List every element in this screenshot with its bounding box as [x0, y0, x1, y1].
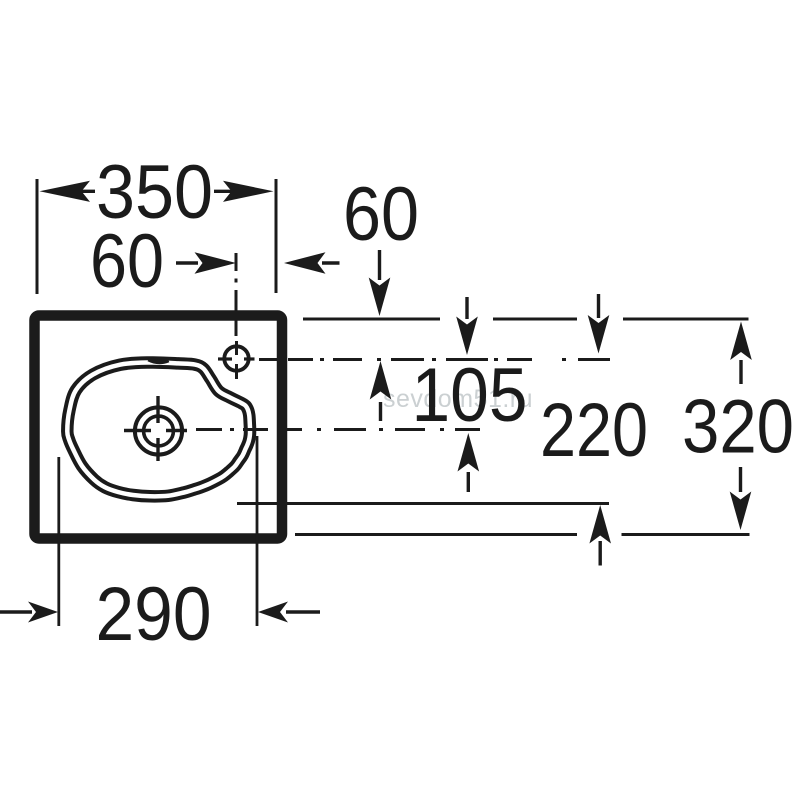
reference line: top edge level (right segment)	[623, 318, 749, 321]
centerline: drain horizontal dash-dot	[196, 428, 480, 431]
basin bowl rim (double outline)	[67, 362, 250, 496]
washbasin body outline (thick square)	[35, 316, 283, 539]
dim 105 arrow up (to drain centerline)	[458, 433, 480, 492]
dim 350 extension line left	[36, 179, 39, 294]
dim 60 vertical arrow up (to faucet centerline)	[370, 361, 392, 421]
overflow slot on rim	[149, 359, 169, 362]
reference line: top edge level (left segment)	[303, 318, 440, 321]
reference line: bottom edge level (right segment)	[622, 533, 750, 536]
svg-text:60: 60	[90, 219, 164, 304]
dim 60 vertical arrow down (to top edge line)	[369, 250, 391, 316]
centerline: faucet hole horizontal dash-dot	[259, 358, 610, 361]
drain hole crosshair	[124, 396, 187, 461]
svg-text:60: 60	[343, 172, 419, 257]
dim 290 arrow left (outside)	[0, 602, 58, 623]
dim 320 arrow down (to bottom edge line)	[730, 467, 752, 530]
faucet hole crosshair	[218, 346, 255, 370]
centerline: faucet hole vertical dash-dot	[235, 253, 239, 379]
reference line: basin front edge level	[237, 502, 609, 505]
dim 350 extension line right	[275, 179, 278, 293]
svg-text:220: 220	[540, 388, 648, 473]
dim 290 extension line left	[57, 457, 60, 626]
svg-text:320: 320	[682, 385, 794, 470]
reference line: bottom edge level (left segment)	[295, 533, 577, 536]
svg-text:290: 290	[96, 572, 212, 657]
dim 60 horizontal arrow (to right edge)	[284, 252, 340, 274]
dim 60 horizontal arrow (to faucet centerline)	[176, 252, 236, 274]
dim 290 arrow right (outside)	[258, 602, 320, 623]
reference line: top edge level (middle segment)	[493, 318, 577, 321]
dim 105 arrow down (to faucet centerline)	[456, 297, 478, 355]
dim 220 arrow up (to basin front edge line)	[589, 505, 611, 566]
dim 350 arrow left	[40, 181, 96, 202]
dim 220 arrow down (to faucet centerline)	[588, 294, 610, 354]
dim 290 extension line right	[256, 436, 259, 626]
dim 320 arrow up (to top edge line)	[730, 322, 752, 385]
dim 350 arrow right	[214, 181, 274, 202]
svg-text:105: 105	[412, 353, 528, 438]
